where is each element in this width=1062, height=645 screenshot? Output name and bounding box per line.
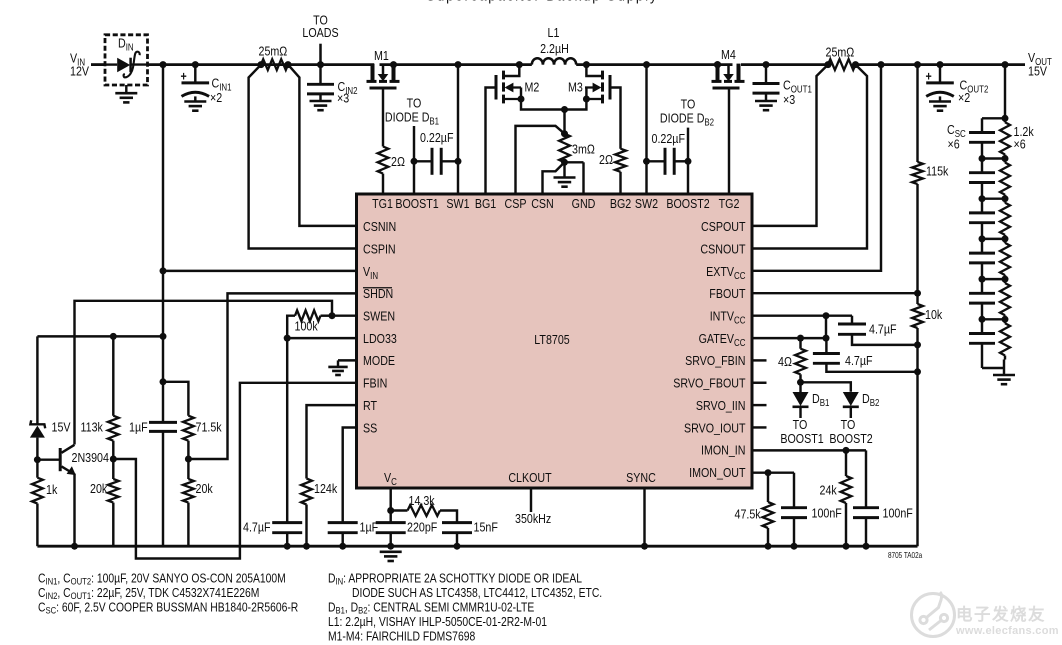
ideal diode DIN in dashed box	[105, 35, 148, 85]
svg-text:2Ω: 2Ω	[599, 152, 613, 167]
svg-text:M3: M3	[568, 79, 583, 94]
inductor L1 2.2µH	[532, 25, 576, 65]
svg-text:24k: 24k	[820, 482, 838, 497]
svg-text:12V: 12V	[70, 63, 89, 78]
pin labels top row	[372, 196, 740, 211]
svg-text:1k: 1k	[46, 482, 58, 497]
wire IMON_IN pin	[752, 447, 866, 508]
wire 115k to FBOUT node	[914, 184, 921, 297]
wire SW1 node rail	[380, 61, 532, 68]
note CIN1/COUT2	[38, 572, 286, 587]
svg-text:1µF: 1µF	[129, 419, 148, 434]
capacitor COUT1	[753, 65, 812, 108]
svg-text:×2: ×2	[958, 90, 970, 105]
resistor 20k (right)	[183, 459, 214, 546]
resistor 47.5k	[735, 473, 774, 550]
svg-text:CSNIN: CSNIN	[363, 219, 396, 234]
svg-text:+: +	[181, 68, 187, 83]
svg-text:IMON_OUT: IMON_OUT	[689, 465, 746, 480]
node 71.5k/20k tap	[185, 456, 192, 463]
svg-text:71.5k: 71.5k	[196, 419, 223, 434]
note L1	[328, 615, 547, 629]
wire INTVCC to GATEVCC	[825, 316, 827, 338]
wire emitter to bus	[71, 474, 78, 550]
ground below CIN2	[310, 94, 332, 110]
wire BG2 to IC	[619, 172, 621, 194]
svg-text:CSPOUT: CSPOUT	[701, 219, 746, 234]
pin labels bottom row	[384, 470, 656, 487]
svg-text:LOADS: LOADS	[302, 25, 338, 40]
svg-text:3mΩ: 3mΩ	[572, 141, 595, 156]
svg-text:M4: M4	[721, 47, 736, 62]
node TO LOADS stub	[302, 12, 338, 64]
wire 71.5k top	[163, 382, 188, 416]
node 113k/20k tap	[110, 456, 117, 463]
note DB1/DB2	[328, 601, 534, 616]
wire ground bus	[37, 545, 917, 548]
resistor 20k (left)	[90, 459, 119, 546]
resistor 100k (SWEN)	[287, 310, 332, 338]
svg-text:×6: ×6	[948, 136, 960, 151]
svg-text:0.22µF: 0.22µF	[652, 131, 685, 146]
svg-text:+: +	[926, 68, 932, 83]
svg-text:20k: 20k	[90, 481, 108, 496]
wire 3m&#937; to GND pin	[565, 162, 584, 194]
svg-text:115k: 115k	[926, 163, 949, 178]
wire FBIN pin	[114, 383, 356, 559]
label 8705 TA02a	[888, 551, 922, 560]
wire CSNIN kelvin (right tap)	[288, 65, 357, 226]
wire IMON_OUT pin	[752, 469, 794, 508]
transistor Q1 2N3904	[37, 445, 109, 475]
ground below DIN	[115, 85, 137, 102]
wire VOUT rail	[741, 61, 1025, 68]
svg-text:2N3904: 2N3904	[72, 450, 110, 465]
svg-text:FBOUT: FBOUT	[709, 286, 746, 301]
op-amp U1 LT8705 body	[357, 194, 753, 488]
svg-text:L1: 2.2µH, VISHAY IHLP-5050CE-: L1: 2.2µH, VISHAY IHLP-5050CE-01-2R2-M-0…	[328, 615, 547, 629]
svg-text:8705 TA02a: 8705 TA02a	[888, 551, 922, 560]
svg-text:TG1: TG1	[372, 196, 393, 211]
capacitor 100nF (IMON_IN)	[853, 505, 913, 549]
svg-text:47.5k: 47.5k	[735, 506, 762, 521]
pin labels right column	[673, 219, 746, 480]
wire SW2 node rail	[576, 61, 732, 68]
svg-text:BOOST2: BOOST2	[666, 196, 710, 211]
wire SW2 to IC pin	[643, 65, 650, 194]
resistor 25m&#937; output sense	[826, 44, 856, 70]
note CIN2/COUT1	[38, 586, 259, 601]
svg-text:SRVO_IIN: SRVO_IIN	[696, 398, 746, 413]
wire collector to SWEN line	[75, 301, 336, 445]
svg-text:FBIN: FBIN	[363, 375, 387, 390]
svg-text:×3: ×3	[337, 90, 349, 105]
wire M4 gate to TG2	[728, 88, 730, 194]
svg-text:www.elecfans.com: www.elecfans.com	[955, 625, 1059, 637]
ground below CIN1	[184, 96, 206, 110]
pin stubs SRVO (unconnected)	[752, 360, 767, 427]
svg-text:124k: 124k	[314, 481, 338, 496]
node TO DIODE DB2 stub	[660, 96, 714, 194]
svg-text:×2: ×2	[210, 90, 222, 105]
svg-text:SRVO_IOUT: SRVO_IOUT	[684, 420, 746, 435]
capacitor 1µF (SS)	[328, 519, 378, 549]
wire M1 gate to TG1	[382, 88, 384, 194]
wire VIN pin	[163, 270, 357, 272]
svg-text:CSNOUT: CSNOUT	[700, 241, 746, 256]
wire VC pin	[387, 488, 394, 523]
capacitor 220pF (VC)	[376, 519, 438, 549]
label CSC	[947, 122, 966, 152]
note CSC	[38, 601, 298, 616]
svg-text:BG1: BG1	[475, 196, 497, 211]
svg-text:TG2: TG2	[719, 196, 740, 211]
svg-text:4Ω: 4Ω	[778, 354, 792, 369]
svg-text:100k: 100k	[295, 318, 319, 333]
ground below supercap chain	[993, 368, 1015, 384]
svg-text:电子发烧友: 电子发烧友	[956, 604, 1046, 624]
node VOUT label	[1028, 50, 1052, 79]
wire FBOUT to IC	[752, 292, 918, 294]
transistor M2 (NMOS)	[486, 65, 565, 194]
watermark elecfans logo	[912, 592, 1059, 637]
svg-text:2.2µH: 2.2µH	[540, 41, 569, 56]
capacitor 15nF	[442, 519, 498, 549]
wire VOUT to 115k	[916, 65, 918, 162]
resistor 25m&#937; input sense	[259, 43, 289, 70]
capacitor 4.7µF (GATEVCC)	[813, 338, 921, 375]
svg-text:BOOST1: BOOST1	[395, 196, 439, 211]
capacitor 0.22µF (BOOST1)	[414, 130, 458, 175]
svg-text:BOOST1: BOOST1	[780, 431, 824, 446]
wire SHDN pin	[187, 293, 357, 459]
svg-text:15V: 15V	[52, 419, 71, 434]
svg-text:20k: 20k	[196, 481, 214, 496]
pin labels left column	[363, 219, 397, 436]
wire M2/M3 source node to 3m&#937;	[561, 106, 568, 137]
wire SS pin	[343, 428, 357, 523]
wire CSPOUT kelvin	[752, 65, 828, 226]
svg-text:15V: 15V	[1028, 63, 1047, 78]
resistor 10k (FB divider)	[912, 293, 943, 344]
note M1-M4	[328, 630, 475, 644]
resistor 24k	[820, 450, 852, 549]
ground below COUT1	[755, 93, 777, 110]
svg-text:LT8705: LT8705	[534, 332, 570, 347]
svg-text:DIODE SUCH AS LTC4358, LTC4412: DIODE SUCH AS LTC4358, LTC4412, LTC4352,…	[352, 586, 602, 600]
label TO BOOST1	[780, 417, 824, 446]
title text (cropped)	[426, 0, 658, 3]
ground at MODE pin	[328, 367, 347, 375]
wire INTVCC pin	[752, 312, 852, 319]
capacitor bank CSC ×6 with 1.2k ×6 balance resistors	[969, 65, 1010, 368]
wire zener branch top	[37, 333, 163, 340]
ground below COUT2	[929, 96, 951, 110]
wire DB2 anode link	[801, 382, 851, 392]
wire 124k to bus	[303, 505, 310, 550]
wire MODE pin	[338, 360, 357, 366]
svg-text:2Ω: 2Ω	[391, 154, 405, 169]
resistor 3m&#937; current sense	[559, 134, 595, 166]
svg-text:4.7µF: 4.7µF	[845, 353, 873, 368]
resistor 2&#937; (TG1 gate)	[378, 147, 405, 174]
diode DB1	[793, 382, 830, 418]
svg-text:4.7µF: 4.7µF	[243, 519, 271, 534]
svg-text:25mΩ: 25mΩ	[259, 43, 288, 58]
capacitor COUT2 (polarized)	[926, 65, 989, 106]
svg-text:SS: SS	[363, 420, 377, 435]
resistor 115k	[912, 162, 949, 184]
node 4&#937; bottom	[797, 379, 804, 386]
svg-text:4.7µF: 4.7µF	[869, 321, 897, 336]
transistor M1 (NMOS)	[367, 48, 400, 88]
resistor 2&#937; (BG2 gate)	[599, 149, 626, 172]
wire CSP kelvin tap	[516, 126, 565, 194]
svg-text:SWEN: SWEN	[363, 308, 395, 323]
capacitor 4.7µF (LDO33)	[243, 519, 302, 549]
svg-text:SW1: SW1	[446, 196, 469, 211]
svg-text:L1: L1	[548, 25, 560, 40]
diode DB2	[843, 391, 880, 418]
svg-text:0.22µF: 0.22µF	[420, 130, 453, 145]
svg-text:SW2: SW2	[635, 196, 658, 211]
resistor 113k	[81, 336, 119, 459]
resistor 14.3k	[391, 493, 457, 523]
svg-text:SRVO_FBIN: SRVO_FBIN	[685, 353, 745, 368]
wire CSN kelvin tap	[543, 162, 565, 194]
resistor 71.5k	[183, 416, 223, 459]
svg-text:×3: ×3	[783, 92, 795, 107]
svg-text:GND: GND	[572, 196, 596, 211]
transistor M4 (NMOS)	[712, 47, 745, 88]
capacitor 100nF (IMON_OUT)	[781, 505, 842, 549]
zener diode 15V	[30, 336, 71, 459]
svg-text:IMON_IN: IMON_IN	[701, 443, 746, 458]
capacitor 1µF (VIN filter)	[129, 382, 177, 546]
svg-text:100nF: 100nF	[812, 505, 842, 520]
svg-text:BOOST2: BOOST2	[829, 431, 873, 446]
wire CSNOUT kelvin	[752, 65, 867, 249]
resistor 1k	[32, 460, 58, 547]
capacitor 0.22µF (BOOST2)	[647, 131, 689, 175]
node CLKOUT stub	[515, 488, 551, 526]
wire SW1 to IC pin	[455, 65, 462, 194]
svg-text:113k: 113k	[81, 419, 104, 434]
svg-text:CSPIN: CSPIN	[363, 241, 396, 256]
svg-text:Supercapacitor Backup Supply: Supercapacitor Backup Supply	[426, 0, 658, 3]
svg-text:MODE: MODE	[363, 353, 395, 368]
svg-text:220pF: 220pF	[407, 519, 437, 534]
note DIN line2	[352, 586, 602, 600]
wire LDO33/100k to 4.7µF	[286, 338, 288, 522]
note DIN	[328, 572, 582, 587]
wire SYNC to bus	[641, 488, 648, 550]
wire RT pin	[307, 405, 357, 478]
wire GATEVCC pin	[752, 335, 830, 342]
svg-text:BG2: BG2	[610, 196, 632, 211]
node VIN input label	[70, 50, 89, 78]
svg-text:DIN: APPROPRIATE 2A SCHOTTKY D: DIN: APPROPRIATE 2A SCHOTTKY DIODE OR ID…	[328, 572, 582, 587]
svg-text:RT: RT	[363, 398, 378, 413]
wire SWEN pin	[332, 314, 357, 316]
label 1.2k	[1014, 124, 1035, 152]
svg-text:CLKOUT: CLKOUT	[508, 470, 552, 485]
svg-text:M1: M1	[374, 48, 389, 63]
wire CSPIN kelvin (left tap)	[249, 65, 357, 249]
svg-text:350kHz: 350kHz	[515, 511, 551, 526]
node TO DIODE DB1 stub	[385, 95, 439, 194]
ground at VC	[380, 552, 402, 561]
svg-text:×6: ×6	[1014, 136, 1026, 151]
svg-text:M2: M2	[525, 79, 540, 94]
svg-text:25mΩ: 25mΩ	[826, 44, 855, 59]
wire LDO33 pin	[284, 335, 357, 342]
svg-text:CSP: CSP	[505, 196, 527, 211]
resistor 124k	[301, 479, 338, 505]
svg-text:CSN: CSN	[531, 196, 554, 211]
svg-text:10k: 10k	[925, 307, 943, 322]
svg-text:LDO33: LDO33	[363, 331, 397, 346]
wire EXTVCC to VOUT rail	[752, 65, 881, 271]
node zener/base junction	[34, 456, 41, 463]
svg-text:M1-M4: FAIRCHILD FDMS7698: M1-M4: FAIRCHILD FDMS7698	[328, 630, 475, 644]
svg-text:100nF: 100nF	[883, 505, 913, 520]
svg-text:14.3k: 14.3k	[409, 493, 436, 508]
capacitor 4.7µF (INTVCC)	[838, 316, 921, 349]
capacitor CIN1 (polarized)	[181, 65, 232, 106]
svg-text:SRVO_FBOUT: SRVO_FBOUT	[673, 375, 746, 390]
wire bus right riser	[916, 345, 918, 546]
svg-text:15nF: 15nF	[474, 519, 498, 534]
capacitor CIN2	[307, 65, 358, 106]
svg-text:SYNC: SYNC	[626, 470, 656, 485]
resistor 4&#937;	[778, 338, 806, 382]
wire VIN rail	[91, 61, 374, 68]
label TO BOOST2	[829, 417, 873, 446]
svg-text:CSC: 60F, 2.5V COOPER BUSSMAN: CSC: 60F, 2.5V COOPER BUSSMAN HB1840-2R5…	[38, 601, 298, 616]
ground below 3m&#937;	[554, 162, 576, 186]
svg-text:1µF: 1µF	[360, 519, 379, 534]
wire VIN line vertical	[160, 65, 167, 386]
transistor M3 (NMOS)	[565, 65, 621, 149]
